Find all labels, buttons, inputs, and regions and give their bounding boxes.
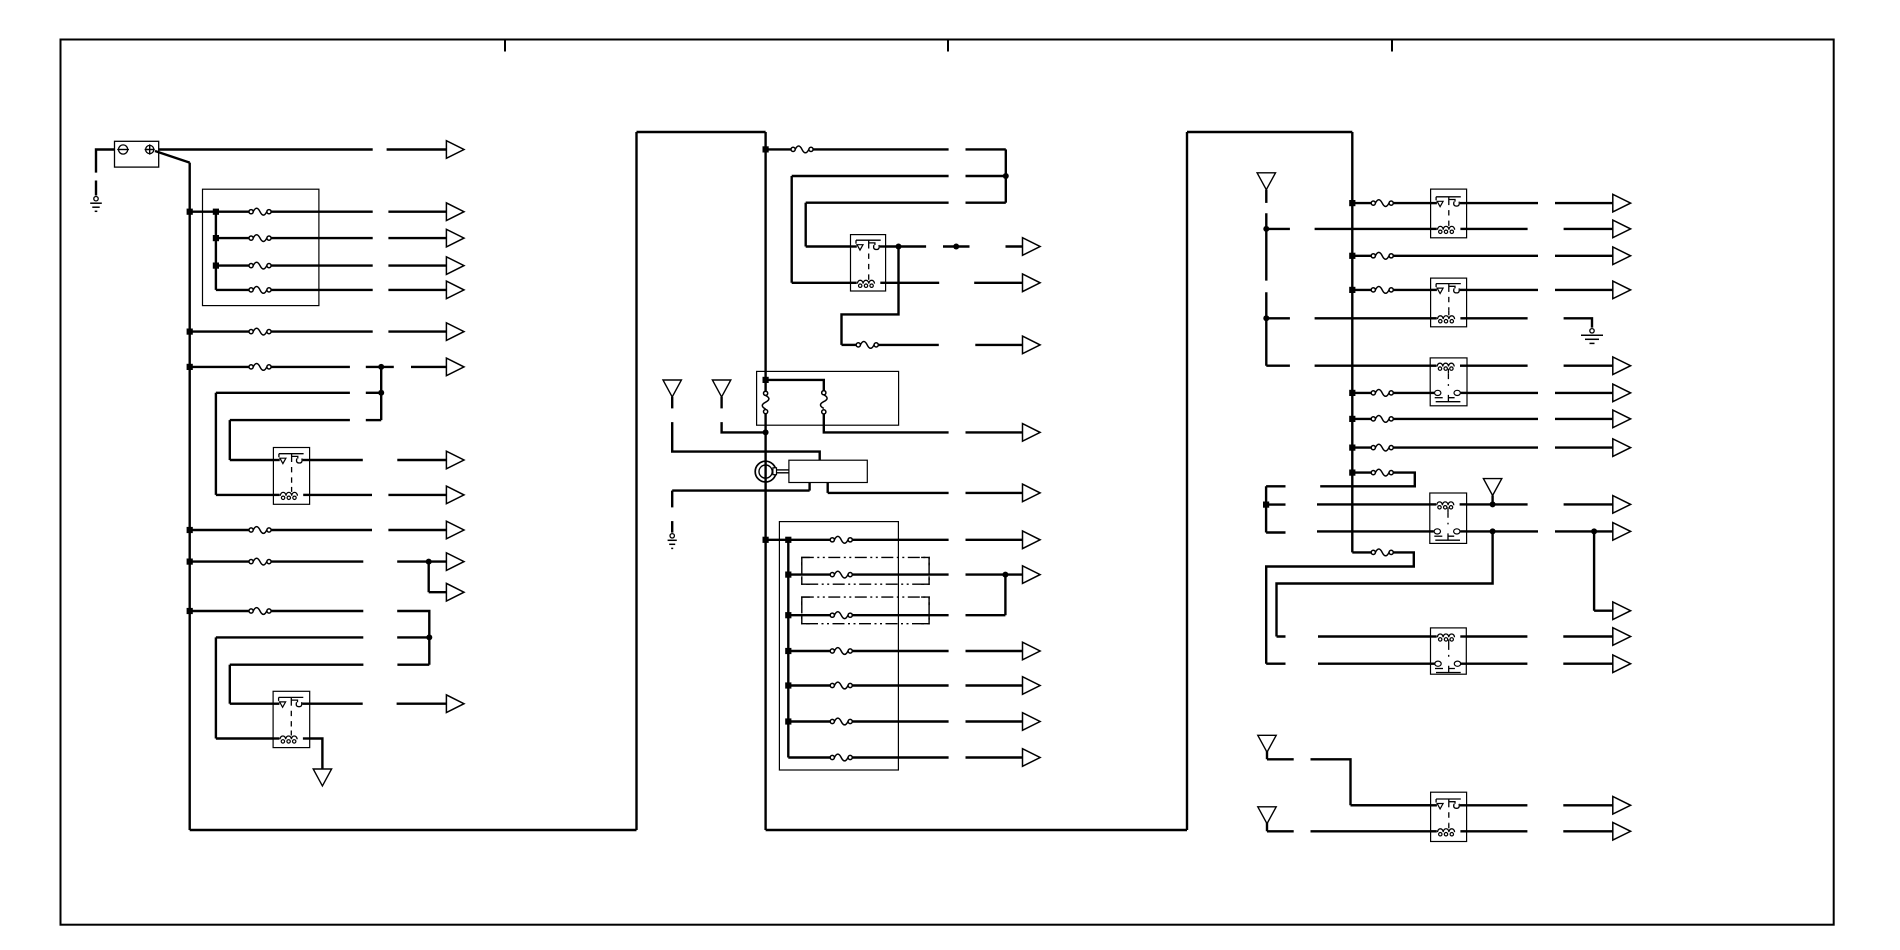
wire K9 contact in fix <box>1351 804 1431 806</box>
wire MB1 right out <box>828 492 949 494</box>
wire main bus left column <box>188 163 190 830</box>
relay K8 <box>1431 628 1467 674</box>
top border tick 3 <box>1391 41 1393 52</box>
wire K3 coil in <box>792 282 851 284</box>
wire K8 contact out <box>1466 663 1527 665</box>
arrow connector A34 <box>1555 523 1631 541</box>
flag connector T1 <box>313 769 331 786</box>
wire FB2 to F18 <box>788 684 830 686</box>
wire F7 out <box>271 529 372 531</box>
wire bus to F1 <box>190 210 249 212</box>
node FB1 row1 <box>213 209 219 215</box>
wire M6-M7 drop <box>1004 575 1006 616</box>
relay K3 <box>851 235 886 291</box>
fuse F16 <box>830 612 852 619</box>
wire bus to F6 <box>190 366 249 368</box>
wire riser right <box>1186 132 1188 830</box>
wire A34 branch drop <box>1593 531 1595 610</box>
arrow connector A26 <box>1564 220 1631 238</box>
fuse F11 <box>856 342 878 349</box>
wire KB coil feed <box>1315 317 1431 319</box>
fuse F24 <box>1371 390 1393 397</box>
flag connector T5 <box>1483 479 1501 496</box>
wire MB1 stub right <box>827 483 829 493</box>
relay K4 <box>1431 189 1467 238</box>
wire FB2 to F20 <box>788 756 830 758</box>
wire branch drop 2 <box>428 562 430 593</box>
wire bus to F24 <box>1352 392 1371 394</box>
wire T4 stub2 <box>1266 317 1290 319</box>
wire M1 connector segment <box>966 148 1006 150</box>
fuse F7 <box>249 527 271 534</box>
flag antenna T2 <box>663 380 681 397</box>
node K3 floating dot <box>953 244 959 250</box>
arrow connector A28 <box>1555 281 1631 299</box>
fuse F26 <box>1371 444 1393 451</box>
wire battery negative lead lower <box>95 181 97 196</box>
flag antenna T4 <box>1257 173 1275 190</box>
wire F19 out <box>853 720 949 722</box>
top border tick 1 <box>504 41 506 52</box>
wire F2 out <box>271 237 372 239</box>
wire T4 stub3 <box>1266 365 1290 367</box>
wire K6 coil out <box>1467 365 1528 367</box>
wire K8 coil in <box>1318 635 1431 637</box>
fuse F18 <box>830 682 852 689</box>
arrow connector A9 <box>388 486 464 504</box>
node bus row9 <box>187 527 193 533</box>
wire K1 contact out <box>310 459 363 461</box>
wire FB1 inner bus <box>215 212 217 290</box>
wire K1 contact in <box>230 459 274 461</box>
wire K9 coil out <box>1467 830 1528 832</box>
arrow connector A14 <box>1006 238 1041 256</box>
wire F18 out <box>853 684 949 686</box>
wire bus to F25 <box>1352 418 1371 420</box>
ground G2 mid <box>668 534 677 549</box>
arrow connector A18 <box>966 484 1041 502</box>
wire C1 link upper <box>777 469 789 471</box>
wire bus to F8 <box>190 560 249 562</box>
wire K2 coil in <box>216 737 273 739</box>
wire T7 stem <box>1267 823 1294 831</box>
node right bus R9 corner <box>1352 551 1371 553</box>
arrow connector A30 <box>1555 384 1631 402</box>
dashed option box D1 <box>802 557 929 584</box>
wire row13 down to K2 contact <box>229 665 231 704</box>
wire K3 floating segment <box>943 245 970 247</box>
arrow connector A19 <box>966 531 1041 549</box>
wire row13 connector stub <box>397 664 429 666</box>
arrow connector A17 <box>966 424 1041 442</box>
node FB2 row M8 <box>785 648 791 654</box>
relay K5 <box>1431 278 1467 327</box>
wire M3 down to K3 contact <box>805 203 807 247</box>
wire K3 contact out <box>886 245 927 247</box>
module box MB1 <box>789 460 867 482</box>
wire T2 stem <box>671 397 673 409</box>
node right bus R8 <box>1349 470 1355 476</box>
wire F3 out <box>271 264 372 266</box>
dashed option box D2 <box>802 597 929 624</box>
wire K5 coil out <box>1467 317 1528 319</box>
arrow connector A4 <box>388 257 464 275</box>
wire row13 link <box>230 664 364 666</box>
connector ring C1 <box>755 461 776 482</box>
arrow connector A15 <box>974 274 1040 292</box>
wire M3 connector stub <box>966 201 1006 203</box>
flag antenna T6 <box>1258 735 1276 752</box>
arrow connector A24 <box>966 749 1041 767</box>
wire F22 out <box>1394 255 1538 257</box>
wire T6 link <box>1311 759 1431 805</box>
node SB1 tap <box>763 377 769 383</box>
relay K2 <box>273 691 310 747</box>
arrow connector A34b <box>1594 602 1631 620</box>
node FB2 row M10 <box>785 718 791 724</box>
node K3 branch <box>896 244 902 250</box>
wire M1 drop <box>1005 149 1007 202</box>
wire F21 out <box>1394 202 1431 204</box>
wire K7 contact branch <box>1277 531 1493 636</box>
wire row7 link <box>216 392 350 394</box>
wire bus to F5 <box>190 330 249 332</box>
wire F28 wrap <box>1266 552 1414 663</box>
node FB1 row3 <box>213 263 219 269</box>
fuse F20 <box>830 754 852 761</box>
wire bus to F14 <box>766 539 831 541</box>
node bus row6 <box>187 364 193 370</box>
node FB1 row2 <box>213 235 219 241</box>
wire K9 contact out <box>1467 804 1528 806</box>
arrow connector A36 <box>1563 655 1630 673</box>
node bus row11 <box>187 608 193 614</box>
node K7 coil tap <box>1490 501 1496 507</box>
fuse F12 vertical <box>762 391 769 414</box>
arrow connector A29 <box>1564 357 1631 375</box>
arrow connector A5 <box>388 281 464 299</box>
arrow connector A33 <box>1564 496 1631 514</box>
wire FB2 to F16 <box>788 614 830 616</box>
wire F9 connector segment <box>397 611 429 665</box>
wire K3 branch drop <box>842 247 899 345</box>
arrow connector A25 <box>1555 194 1631 212</box>
node bus row5 <box>187 329 193 335</box>
wire K7 coil out <box>1467 503 1528 505</box>
wire bus to F22 <box>1352 255 1371 257</box>
node branch row12 <box>426 634 432 640</box>
node T4 tap2 <box>1263 315 1269 321</box>
arrow connector A38 <box>1563 823 1630 841</box>
arrow connector A27 <box>1555 247 1631 265</box>
node A34 branch <box>1591 528 1597 534</box>
node bus T3 tap <box>763 429 769 435</box>
node right bus R7 <box>1349 445 1355 451</box>
arrow connector A12 <box>429 583 464 601</box>
wire bottom bus left-to-mid <box>190 829 637 831</box>
node right bus R1 <box>1349 200 1355 206</box>
battery BT1 positive terminal <box>145 144 155 154</box>
node M2 junction <box>1003 173 1009 179</box>
wire K7 coil in <box>1317 503 1430 505</box>
wire T6 stem <box>1267 751 1294 759</box>
arrow connector A1 <box>387 141 464 159</box>
wire F10 out <box>813 148 948 150</box>
wire F5 out <box>271 330 372 332</box>
wire K7 contact in <box>1317 530 1430 532</box>
node bus row10 <box>187 559 193 565</box>
wire F8 out <box>271 560 363 562</box>
wire FB2 to F17 <box>788 650 830 652</box>
wire KA coil feed <box>1315 228 1431 230</box>
node FB2 row M7 <box>785 612 791 618</box>
wire battery negative lead <box>96 150 115 173</box>
wire K8 coil out <box>1466 635 1527 637</box>
fuse F5 <box>249 328 271 335</box>
fuse F10 <box>791 146 813 153</box>
wire FB1 to F4 <box>216 289 249 291</box>
wire top link right <box>1187 131 1352 133</box>
fuse F25 <box>1371 416 1393 423</box>
wire F26 out <box>1394 446 1538 448</box>
wire row12 connector stub <box>397 636 429 638</box>
relay K1 <box>273 448 309 505</box>
wire row12 link <box>216 636 363 638</box>
wire main bus right column <box>1351 132 1353 552</box>
wire KC coil feed <box>1315 365 1431 367</box>
wire ground drop mid lower <box>671 521 673 533</box>
node FB2 row M6 <box>785 572 791 578</box>
node right bus R6 <box>1349 416 1355 422</box>
fuse F21 <box>1371 200 1393 207</box>
wire T3 stem <box>720 397 722 409</box>
arrow connector A20 head <box>1023 566 1041 584</box>
node right bus R3 <box>1349 253 1355 259</box>
fuse F8 <box>249 558 271 565</box>
relay K7 <box>1430 493 1467 543</box>
node M6 branch <box>1002 572 1008 578</box>
wire K8 contact in <box>1318 663 1431 665</box>
fuse F13 vertical <box>821 391 828 414</box>
wire F6 out <box>271 366 350 368</box>
wire T4 stem <box>1265 190 1267 203</box>
node mid bus row M1 <box>763 146 769 152</box>
wire bus to F26 <box>1352 446 1371 448</box>
fuse F4 <box>249 287 271 294</box>
arrow connector A32 <box>1555 439 1631 457</box>
fuse F22 <box>1371 252 1393 259</box>
fuse F28 <box>1371 549 1393 556</box>
wire F11 out <box>879 344 939 346</box>
ground G3 right <box>1581 329 1603 344</box>
wire K4 coil out <box>1467 228 1528 230</box>
arrow connector A7 <box>411 358 464 376</box>
wire T3 stem lower <box>722 422 766 432</box>
wire M2 link <box>792 175 949 177</box>
wire T5 stem <box>1491 496 1493 505</box>
arrow connector A13 <box>397 695 464 713</box>
wire K5 coil to ground <box>1564 318 1592 327</box>
wire main bus mid column lower <box>764 414 766 830</box>
wire F17 out <box>853 650 949 652</box>
wire K2 contact out <box>310 703 363 705</box>
wire FB2 to F19 <box>788 720 830 722</box>
arrow connector A11 head <box>446 553 464 571</box>
wire E-bracket <box>1266 486 1285 532</box>
wire K1 coil in <box>216 494 274 496</box>
arrow connector A23 <box>966 713 1041 731</box>
relay K6 <box>1430 358 1467 406</box>
wire T7 link <box>1311 830 1431 832</box>
fuse F17 <box>830 648 852 655</box>
wire MB1 left feed <box>672 489 809 491</box>
wire F20 out <box>853 756 949 758</box>
wire C1 link lower <box>777 472 789 474</box>
fuse F6 <box>249 364 271 371</box>
connector ring C1 tab <box>773 468 777 475</box>
fuse F23 <box>1371 287 1393 294</box>
wire F23 out <box>1394 289 1431 291</box>
wire FB2 to F15 <box>788 573 830 575</box>
fuse F14 <box>830 536 852 543</box>
wire M7 connector stub <box>966 614 1006 616</box>
wire F8 arrow feed <box>397 560 446 562</box>
node branch mid <box>378 390 384 396</box>
arrow connector A3 <box>388 229 464 247</box>
wire T4 stub1 <box>1266 228 1290 230</box>
wire bus to F21 <box>1352 202 1371 204</box>
wire battery positive feed <box>159 148 373 150</box>
node right bus R4 <box>1349 287 1355 293</box>
wire F13 out <box>824 414 949 432</box>
wire battery positive to bus <box>155 151 190 163</box>
relay K9 <box>1431 792 1467 841</box>
arrow connector A16 <box>975 336 1040 354</box>
wire F6 connector segment <box>366 366 394 368</box>
wire K2 coil out <box>310 739 323 770</box>
wire row8 down to K1 contact <box>229 420 231 460</box>
fuse box FB1 <box>203 189 319 305</box>
wire F9 out <box>271 610 363 612</box>
wire row8 link <box>230 419 350 421</box>
wire FB2 inner bus <box>787 540 789 758</box>
node mid bus row M5 <box>763 537 769 543</box>
arrow connector A37 <box>1563 797 1630 815</box>
wire row7 connector stub <box>366 392 381 394</box>
node F6 branch <box>378 364 384 370</box>
wire F4 out <box>271 289 372 291</box>
wire bottom bus mid-to-right <box>766 829 1187 831</box>
wire F24 out <box>1394 392 1431 394</box>
wire bus to F23 <box>1352 289 1371 291</box>
flag antenna T3 <box>712 380 730 397</box>
wire K4 contact out <box>1467 202 1538 204</box>
wire to F11 <box>842 344 857 346</box>
wire K1 coil out <box>310 494 372 496</box>
fuse F15 <box>830 571 852 578</box>
ground G1 battery <box>90 197 102 212</box>
arrow connector A8 <box>397 451 464 469</box>
arrow connector A31 <box>1555 410 1631 428</box>
wire row8 connector stub <box>366 419 381 421</box>
wire F27 wrap <box>1320 473 1415 487</box>
wire branch drop <box>380 367 382 420</box>
arrow connector A22 <box>966 677 1041 695</box>
wire bus to F27 <box>1352 471 1371 473</box>
wire FB1 to F3 <box>216 264 249 266</box>
wire riser mid-left <box>635 132 637 830</box>
arrow connector A21 <box>966 642 1041 660</box>
flag antenna T7 <box>1258 807 1276 824</box>
fuse F2 <box>249 235 271 242</box>
node FB2 row M9 <box>785 682 791 688</box>
wire M2 down to K3 coil <box>791 176 793 283</box>
node F8 branch <box>426 559 432 565</box>
arrow connector A6 <box>388 323 464 341</box>
node T4 tap1 <box>1263 226 1269 232</box>
wire main bus mid column upper <box>764 132 766 391</box>
wire ground drop mid <box>671 491 673 508</box>
node E-bracket mid <box>1263 502 1269 508</box>
fuse F3 <box>249 262 271 269</box>
wire F14 out <box>853 539 949 541</box>
wire row12 down to K2 coil <box>215 637 217 738</box>
wire K6 contact out <box>1467 392 1538 394</box>
node FB2 row M5 <box>785 537 791 543</box>
wire M6 arrow feed <box>966 573 1023 575</box>
wire bus to F7 <box>190 529 249 531</box>
fuse F9 <box>249 608 271 615</box>
wire FB1 to F2 <box>216 237 249 239</box>
fuse F27 <box>1371 469 1393 476</box>
arrow connector A10 <box>388 521 464 539</box>
wire SB1 branch <box>766 380 824 391</box>
fuse F19 <box>830 718 852 725</box>
wire bus to F10 <box>766 148 791 150</box>
wire K5 contact out <box>1467 289 1538 291</box>
wire K3 contact in <box>806 245 851 247</box>
wire top link mid <box>637 131 766 133</box>
wire F15 out <box>853 573 949 575</box>
wire M3 link <box>806 201 949 203</box>
wire MB1 stub left <box>808 483 810 491</box>
wire K2 contact in <box>230 703 273 705</box>
wire F25 out <box>1394 418 1538 420</box>
battery BT1 negative terminal <box>117 145 129 154</box>
wire T2 stem lower <box>672 422 820 460</box>
wire K7 contact out <box>1467 530 1538 532</box>
top border tick 2 <box>947 41 949 52</box>
battery BT1 case <box>115 141 159 167</box>
arrow connector A35 <box>1563 628 1630 646</box>
wire bus to F9 <box>190 610 249 612</box>
fuse box FB2 <box>779 522 898 770</box>
fuse F1 <box>249 208 271 215</box>
wire M2 connector stub <box>966 175 1006 177</box>
arrow connector A2 <box>388 203 464 221</box>
wire row7 down to K1 coil <box>215 393 217 495</box>
wire T4 stem seg3 <box>1265 292 1267 366</box>
node K7 contact tap <box>1490 528 1496 534</box>
node right bus R5 <box>1349 390 1355 396</box>
wire T4 stem seg2 <box>1265 213 1267 280</box>
wire K3 coil out <box>886 282 940 284</box>
node bus row1 <box>187 209 193 215</box>
switch box SB1 <box>757 371 899 425</box>
wire F16 out <box>853 614 949 616</box>
wire F1 out <box>271 210 372 212</box>
